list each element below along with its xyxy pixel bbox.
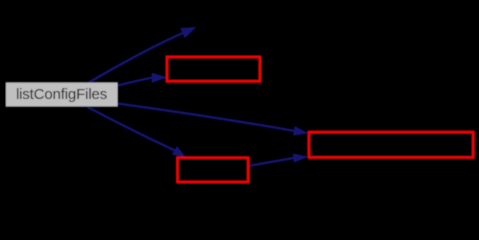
- arrowhead edge3: [293, 126, 308, 135]
- arrowhead edge4: [172, 146, 186, 157]
- arrowhead edge1: [181, 27, 196, 38]
- wire edge2 listConfigFiles to box A: [118, 78, 152, 86]
- arrowhead edge2: [152, 73, 167, 83]
- wire edge5 box C to box B: [249, 158, 294, 166]
- wire edge3 listConfigFiles to box B: [118, 104, 295, 131]
- node box A (truncated callee, red): [167, 57, 260, 81]
- wire edge4 listConfigFiles to box C: [88, 107, 175, 150]
- node box B (truncated callee, red): [309, 132, 473, 157]
- node listConfigFiles: [6, 83, 118, 107]
- wire edge1 listConfigFiles to top node: [89, 33, 183, 82]
- node box C (truncated callee, red): [178, 158, 249, 182]
- arrowhead edge5: [293, 154, 308, 163]
- svg-text:listConfigFiles: listConfigFiles: [16, 86, 107, 103]
